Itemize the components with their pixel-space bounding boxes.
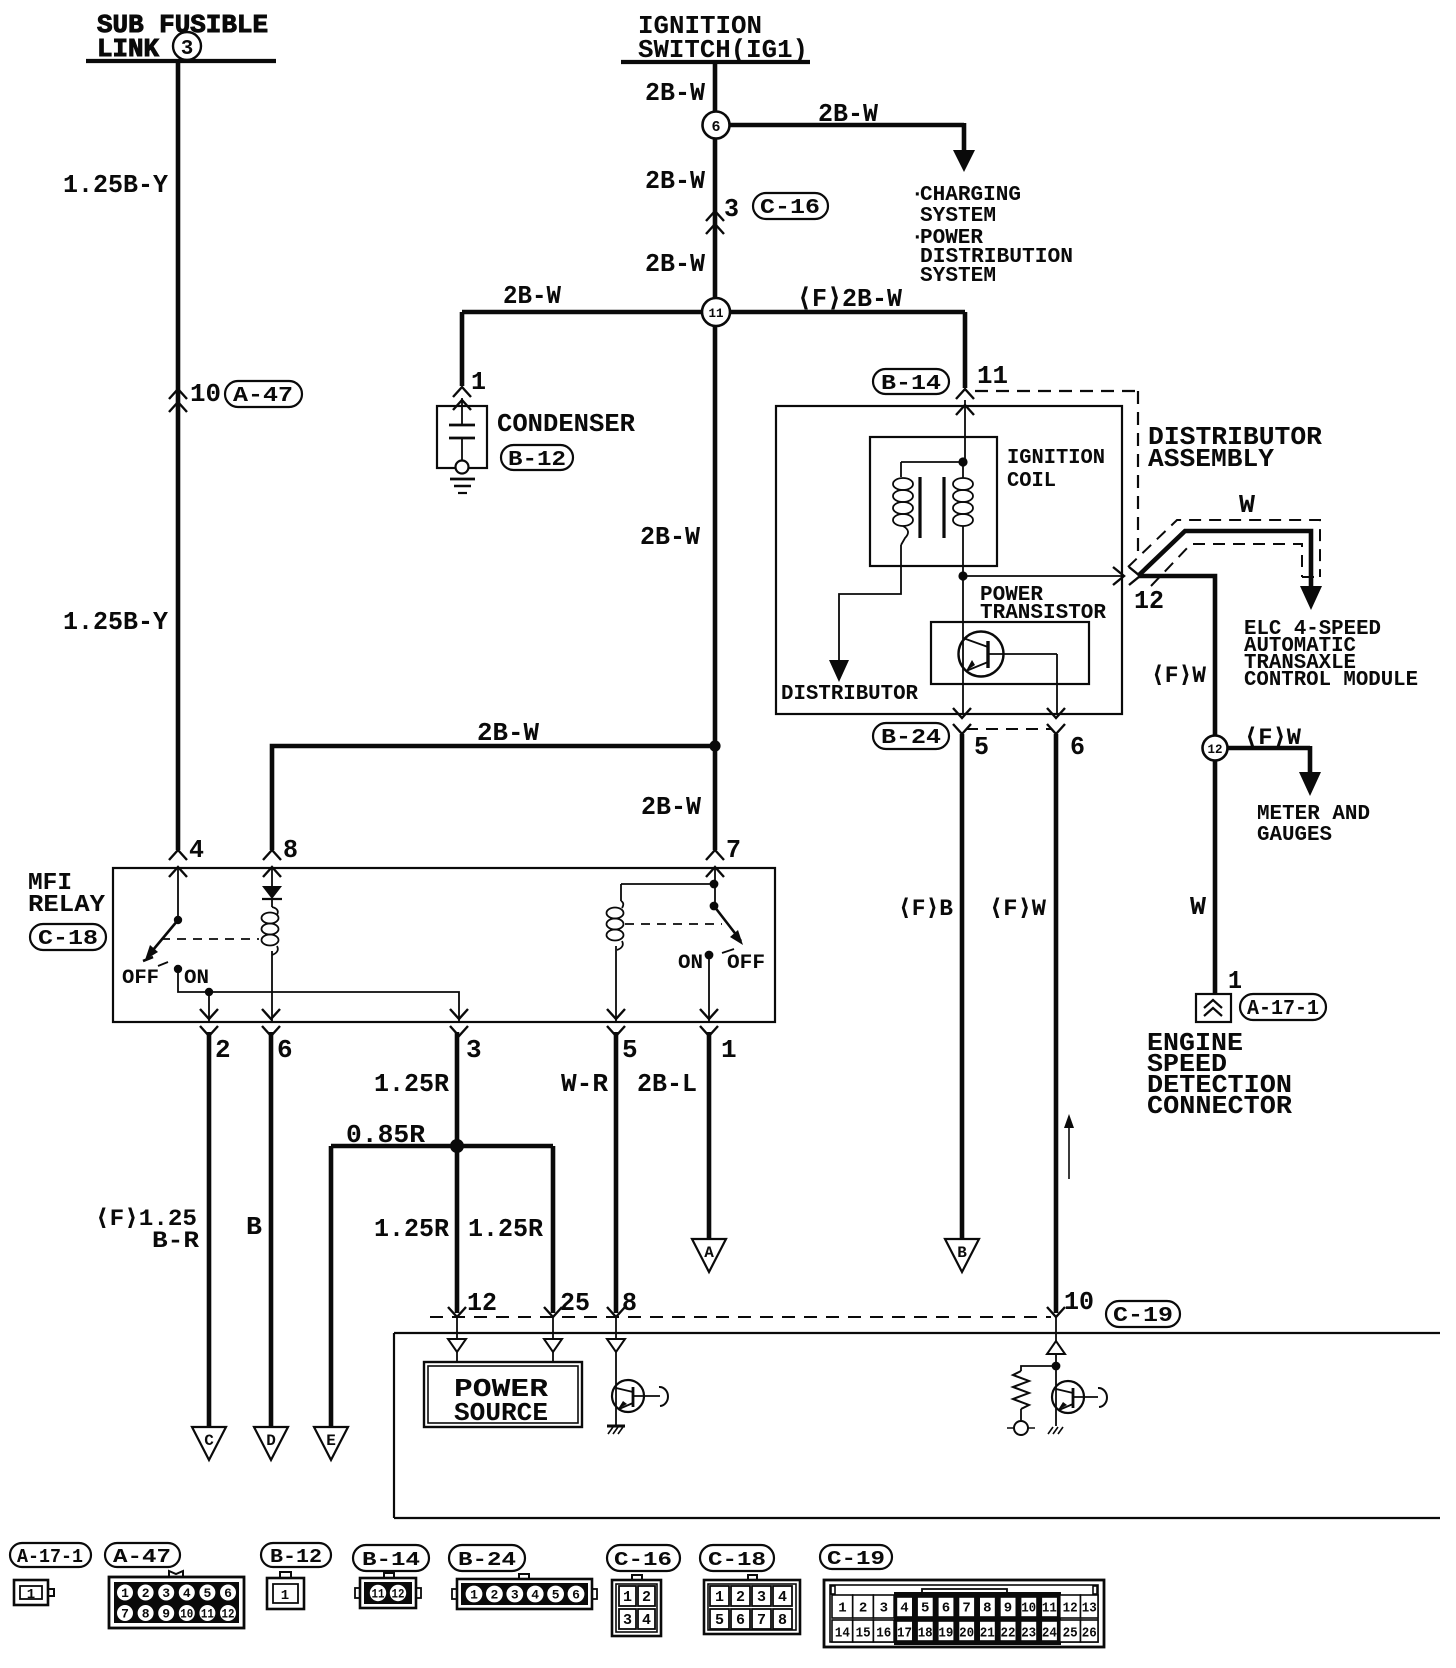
svg-text:11: 11	[201, 1607, 214, 1622]
relay U1 MFI relay box	[113, 868, 775, 1022]
svg-text:1.25B-Y: 1.25B-Y	[63, 607, 168, 637]
svg-text:9: 9	[162, 1607, 170, 1622]
svg-text:8: 8	[983, 1601, 991, 1617]
svg-text:24: 24	[1042, 1626, 1057, 1642]
connector C-19 dashed line	[430, 1316, 1051, 1318]
wire y576 to pin 12 with connector chevrons	[963, 567, 1164, 616]
svg-text:1: 1	[27, 1587, 35, 1603]
wire 2B-W main vertical from ignition switch	[640, 62, 715, 850]
svg-text:B-14: B-14	[881, 373, 941, 396]
svg-text:8: 8	[622, 1288, 637, 1318]
svg-text:3: 3	[757, 1589, 766, 1606]
svg-text:11: 11	[709, 306, 724, 321]
wire 2B-W horizontal through junction 11	[462, 281, 965, 314]
label MFI RELAY (C-18)	[28, 870, 106, 951]
svg-text:2: 2	[736, 1589, 745, 1606]
ground below condenser	[450, 479, 475, 493]
svg-text:2: 2	[859, 1601, 867, 1617]
svg-text:CONNECTOR: CONNECTOR	[1147, 1091, 1292, 1121]
distributor assembly inner box	[776, 406, 1122, 714]
svg-text:11: 11	[977, 361, 1008, 391]
svg-text:3: 3	[724, 194, 739, 224]
svg-text:DISTRIBUTOR: DISTRIBUTOR	[781, 683, 918, 706]
svg-text:⟨F⟩W: ⟨F⟩W	[1151, 663, 1206, 689]
svg-text:2: 2	[642, 1589, 651, 1606]
svg-text:23: 23	[1021, 1626, 1036, 1642]
relay internal wire from ON contact to pins 2 and 3	[178, 969, 459, 1022]
transistor Q3 in module	[1052, 1366, 1107, 1426]
label IGNITION COIL	[1007, 447, 1105, 493]
connector A-47 pin 10 marker on wire	[169, 379, 302, 412]
svg-text:⟨F⟩W: ⟨F⟩W	[989, 896, 1046, 922]
wire (F)B from B-24 pin 5 to triangle B	[898, 734, 962, 1239]
svg-text:3: 3	[623, 1612, 632, 1629]
label ELC 4-SPEED AUTOMATIC TRANSAXLE CONTROL MODULE	[1244, 618, 1418, 692]
wire 2B-W branch to charging system	[729, 99, 975, 172]
svg-text:25: 25	[560, 1288, 590, 1318]
ground for Q2	[607, 1426, 625, 1434]
svg-text:1.25R: 1.25R	[468, 1214, 543, 1244]
svg-text:SOURCE: SOURCE	[454, 1398, 548, 1428]
svg-text:ASSEMBLY: ASSEMBLY	[1148, 444, 1274, 474]
svg-text:5: 5	[974, 732, 989, 762]
svg-text:B: B	[246, 1212, 262, 1242]
svg-text:B-12: B-12	[508, 449, 566, 472]
connector pinout C-19	[820, 1545, 1104, 1647]
connector pinout C-16	[607, 1545, 680, 1636]
svg-text:10: 10	[1064, 1287, 1094, 1317]
svg-text:C-16: C-16	[760, 197, 820, 220]
svg-text:20: 20	[959, 1626, 974, 1642]
wire 2B-W branch to relay pin 8	[272, 718, 721, 850]
svg-text:2B-W: 2B-W	[477, 718, 539, 748]
svg-text:10: 10	[180, 1607, 193, 1622]
resistor R1 and pickup sensor	[1007, 1354, 1060, 1435]
svg-text:3: 3	[162, 1586, 170, 1601]
pin 8 marker	[263, 835, 298, 877]
svg-text:ON: ON	[184, 967, 209, 990]
svg-text:W: W	[1239, 490, 1255, 520]
svg-text:18: 18	[918, 1626, 933, 1642]
svg-text:0.85R: 0.85R	[346, 1120, 425, 1150]
svg-text:W: W	[1190, 892, 1206, 922]
node junction circle 12	[1203, 736, 1228, 761]
control module outline box	[394, 1333, 1440, 1518]
svg-text:2B-L: 2B-L	[637, 1069, 697, 1099]
svg-text:OFF: OFF	[727, 952, 765, 975]
svg-text:A-17-1: A-17-1	[1247, 998, 1319, 1021]
svg-text:W-R: W-R	[561, 1069, 608, 1099]
svg-text:4: 4	[531, 1588, 539, 1603]
module pin stubs into box	[457, 1317, 1056, 1341]
svg-text:3: 3	[181, 38, 194, 61]
node junction to power transistor	[958, 571, 967, 714]
svg-text:B-R: B-R	[152, 1228, 199, 1254]
wire (F)W from pin 12 down to junction 12	[1138, 576, 1215, 736]
connector label B-14	[873, 369, 949, 396]
svg-text:7: 7	[121, 1607, 129, 1622]
svg-text:OFF: OFF	[122, 967, 159, 990]
svg-text:B-24: B-24	[881, 727, 941, 750]
svg-text:A-47: A-47	[113, 1546, 171, 1568]
wire B relay pin 6 to triangle D	[246, 1032, 271, 1427]
svg-text:6: 6	[224, 1586, 232, 1601]
svg-text:12: 12	[1134, 586, 1164, 616]
svg-text:16: 16	[876, 1626, 891, 1642]
svg-text:C-16: C-16	[614, 1549, 672, 1571]
svg-text:SYSTEM: SYSTEM	[920, 265, 996, 288]
svg-text:3: 3	[880, 1601, 888, 1617]
svg-text:13: 13	[1082, 1601, 1097, 1617]
svg-text:1: 1	[623, 1589, 632, 1606]
svg-text:22: 22	[1001, 1626, 1016, 1642]
svg-text:2B-W: 2B-W	[641, 792, 701, 822]
relay right coil (pin 5)	[607, 880, 723, 1022]
svg-text:4: 4	[642, 1612, 651, 1629]
connector B-24 label and pins 5 6	[873, 708, 1085, 762]
svg-text:3: 3	[511, 1588, 519, 1603]
svg-text:A-17-1: A-17-1	[17, 1546, 83, 1568]
svg-text:21: 21	[980, 1626, 995, 1642]
svg-text:B-14: B-14	[362, 1549, 420, 1571]
distributor assembly dashed boundary	[975, 391, 1138, 556]
svg-text:26: 26	[1082, 1626, 1097, 1642]
transistor Q2 in module	[612, 1352, 668, 1426]
svg-text:7: 7	[726, 835, 741, 865]
svg-text:1: 1	[721, 1035, 737, 1065]
wire 1.25B-Y from sub fusible link to MFI relay pin 4	[63, 63, 178, 850]
wire direction arrow annotation	[1064, 1114, 1074, 1179]
connector pinout C-18	[700, 1545, 800, 1634]
svg-text:CHARGING: CHARGING	[920, 184, 1021, 207]
svg-text:10: 10	[190, 379, 221, 409]
svg-text:A-47: A-47	[233, 385, 293, 408]
transistor Q1 power transistor	[931, 622, 1089, 714]
svg-text:12: 12	[222, 1607, 235, 1622]
svg-text:1: 1	[838, 1601, 846, 1617]
connector label C-19	[1106, 1301, 1180, 1328]
wire 1.25R relay pin 3 to C-19 pin 12	[374, 1032, 497, 1318]
svg-text:2B-W: 2B-W	[645, 166, 705, 196]
svg-text:6: 6	[711, 119, 720, 136]
svg-text:A: A	[704, 1244, 714, 1262]
svg-text:4: 4	[900, 1601, 908, 1617]
svg-text:5: 5	[921, 1601, 929, 1617]
relay bottom pin markers 2 6 3 5 1	[200, 1009, 718, 1036]
svg-text:4: 4	[189, 835, 204, 865]
wire (F)2B-W down to distributor B-14 pin 11	[956, 312, 1008, 462]
svg-text:⟨F⟩W: ⟨F⟩W	[1244, 725, 1301, 751]
svg-text:1: 1	[281, 1588, 289, 1604]
svg-text:1.25R: 1.25R	[374, 1069, 449, 1099]
pin 7 marker	[706, 835, 741, 877]
svg-text:25: 25	[1063, 1626, 1078, 1642]
node triangle D	[254, 1427, 288, 1460]
svg-text:6: 6	[942, 1601, 950, 1617]
svg-text:B: B	[957, 1244, 967, 1262]
wire W to ELC module (dashed harness outline)	[1128, 490, 1322, 610]
node SUB FUSIBLE LINK (3)	[86, 10, 276, 64]
connector pinout B-14	[353, 1545, 429, 1608]
svg-text:B-24: B-24	[458, 1549, 516, 1571]
module input triangles	[448, 1339, 1065, 1354]
svg-text:4: 4	[778, 1589, 787, 1606]
svg-text:12: 12	[1208, 742, 1223, 757]
relay right switch (pins 7-1)	[678, 868, 765, 1022]
svg-text:CONDENSER: CONDENSER	[497, 409, 635, 439]
svg-text:4: 4	[183, 1586, 191, 1601]
svg-text:2: 2	[215, 1035, 231, 1065]
svg-text:2B-W: 2B-W	[503, 281, 561, 311]
label DISTRIBUTOR ASSEMBLY	[1148, 422, 1322, 474]
node triangle B	[945, 1239, 979, 1272]
svg-text:5: 5	[203, 1586, 211, 1601]
block POWER SOURCE	[424, 1352, 582, 1428]
svg-text:2B-W: 2B-W	[645, 249, 705, 279]
svg-text:14: 14	[835, 1626, 850, 1642]
svg-text:8: 8	[778, 1612, 787, 1629]
relay left switch	[122, 868, 259, 990]
svg-text:1: 1	[715, 1589, 724, 1606]
svg-text:B-12: B-12	[270, 1546, 322, 1568]
svg-text:19: 19	[938, 1626, 953, 1642]
node triangle A	[692, 1239, 726, 1272]
connector pinout B-24	[449, 1545, 597, 1609]
svg-text:E: E	[326, 1432, 336, 1450]
svg-text:12: 12	[1063, 1601, 1078, 1617]
svg-text:C-18: C-18	[38, 928, 98, 951]
svg-text:C-19: C-19	[1113, 1305, 1173, 1328]
svg-text:7: 7	[757, 1612, 766, 1629]
wire (F)W branch to meter and gauges	[1227, 725, 1370, 847]
relay coil with diode (pins 8-6)	[262, 868, 283, 1022]
connector pinout A-47	[105, 1543, 244, 1628]
svg-text:C: C	[204, 1432, 214, 1450]
svg-text:6: 6	[277, 1035, 293, 1065]
wire W down to engine speed detection connector	[1190, 760, 1242, 996]
svg-text:11: 11	[1042, 1601, 1057, 1617]
svg-text:2B-W: 2B-W	[818, 99, 878, 129]
svg-text:1: 1	[471, 367, 486, 397]
svg-text:C-19: C-19	[827, 1548, 885, 1570]
svg-text:2: 2	[490, 1588, 498, 1603]
wire 0.85R branch	[331, 1120, 590, 1427]
node IGNITION SWITCH (IG1)	[621, 11, 810, 65]
wire drop to condenser pin 1	[453, 312, 486, 410]
transformer ignition coil windings	[893, 457, 973, 576]
svg-text:10: 10	[1021, 1601, 1036, 1617]
svg-text:2B-W: 2B-W	[645, 78, 705, 108]
wire (F)1.25B-R relay pin 2 to triangle C	[95, 1032, 209, 1427]
svg-text:7: 7	[962, 1601, 970, 1617]
wire W-R relay pin 5 to C-19 pin 8	[561, 1032, 637, 1318]
svg-text:COIL: COIL	[1007, 470, 1056, 493]
label POWER TRANSISTOR	[980, 584, 1106, 625]
svg-text:METER AND: METER AND	[1257, 803, 1370, 826]
svg-text:6: 6	[572, 1588, 580, 1603]
svg-text:C-18: C-18	[708, 1549, 766, 1571]
svg-text:15: 15	[856, 1626, 871, 1642]
svg-text:8: 8	[142, 1607, 150, 1622]
svg-text:9: 9	[1004, 1601, 1012, 1617]
ground for Q3	[1048, 1427, 1063, 1434]
svg-text:1: 1	[1228, 966, 1242, 996]
wire (F)W from B-24 pin 6 to C-19 pin 10	[989, 734, 1094, 1317]
svg-text:2: 2	[142, 1586, 150, 1601]
svg-text:12: 12	[392, 1588, 405, 1602]
node triangle E	[314, 1427, 348, 1460]
svg-text:GAUGES: GAUGES	[1257, 824, 1332, 847]
svg-text:SYSTEM: SYSTEM	[920, 205, 996, 228]
node junction circle 11	[702, 298, 730, 326]
svg-text:5: 5	[715, 1612, 724, 1629]
capacitor condenser B-12	[437, 406, 487, 474]
svg-text:2B-W: 2B-W	[640, 522, 700, 552]
svg-text:⟨F⟩2B-W: ⟨F⟩2B-W	[797, 284, 902, 314]
pin 4 marker	[169, 835, 204, 877]
wire from coil primary to distributor arrow	[781, 566, 918, 706]
svg-text:1: 1	[470, 1588, 478, 1603]
svg-text:6: 6	[1070, 732, 1085, 762]
svg-text:1.25B-Y: 1.25B-Y	[63, 170, 168, 200]
svg-text:3: 3	[466, 1035, 482, 1065]
label CONDENSER (B-12)	[497, 409, 635, 472]
svg-text:D: D	[266, 1432, 276, 1450]
ignition coil box	[870, 437, 997, 566]
label CHARGING SYSTEM / POWER DISTRIBUTION SYSTEM	[911, 184, 1073, 288]
svg-text:5: 5	[622, 1035, 638, 1065]
svg-text:CONTROL MODULE: CONTROL MODULE	[1244, 669, 1418, 692]
node junction circle 6	[703, 112, 730, 139]
wire 2B-L relay pin 1 to triangle A	[637, 1032, 709, 1239]
svg-text:8: 8	[283, 835, 298, 865]
svg-text:5: 5	[552, 1588, 560, 1603]
svg-text:1.25R: 1.25R	[374, 1214, 449, 1244]
connector pinout A-17-1	[10, 1543, 91, 1605]
svg-text:1: 1	[121, 1586, 129, 1601]
label ENGINE SPEED DETECTION CONNECTOR	[1147, 1028, 1292, 1121]
connector C-16 pin 3 marker on wire	[706, 193, 828, 234]
connector pinout B-12	[261, 1543, 331, 1609]
svg-text:RELAY: RELAY	[28, 892, 106, 919]
svg-text:17: 17	[897, 1626, 912, 1642]
svg-text:11: 11	[372, 1588, 385, 1602]
node triangle C	[192, 1427, 226, 1460]
svg-text:6: 6	[736, 1612, 745, 1629]
svg-text:12: 12	[467, 1288, 497, 1318]
svg-text:ON: ON	[678, 952, 703, 975]
svg-text:IGNITION: IGNITION	[1007, 447, 1105, 470]
connector A-17-1 engine speed detection connector	[1196, 994, 1326, 1022]
svg-text:⟨F⟩B: ⟨F⟩B	[898, 896, 953, 922]
